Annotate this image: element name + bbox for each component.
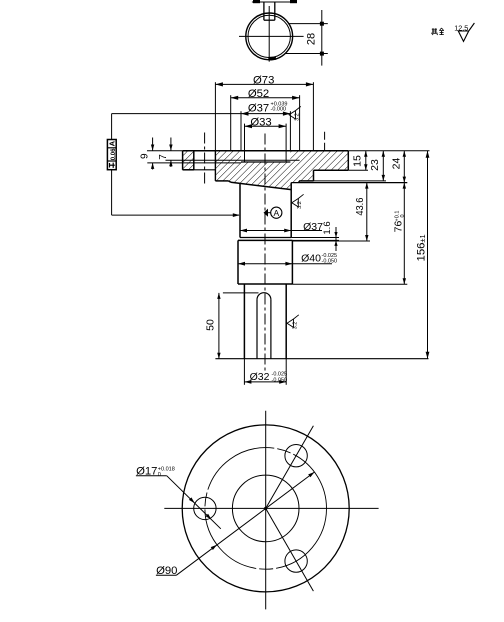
dimension Ø37 (hub) (240, 221, 323, 233)
hub shoulder line 1.6 lower (238, 239, 292, 241)
counterbore bottom (241, 161, 290, 163)
inner circle (top view) (248, 15, 290, 57)
right rim bottom (15 level) (314, 169, 349, 171)
svg-text:3.2: 3.2 (297, 201, 303, 209)
svg-text:7: 7 (158, 154, 169, 160)
svg-text:50: 50 (204, 319, 216, 331)
svg-text:0.06: 0.06 (111, 148, 117, 160)
svg-text:0: 0 (158, 472, 161, 478)
dimension Ø37 +0.039/0 with leader to tolerance frame (241, 102, 290, 151)
keyway slot rounded top (257, 293, 271, 300)
roughness symbol at hub right wall (292, 194, 304, 209)
svg-text:9: 9 (140, 153, 151, 159)
svg-text:0: 0 (400, 214, 406, 217)
left rim hatched block (183, 151, 194, 170)
vertical centerline (bottom view) (265, 411, 267, 610)
svg-text:Ø33: Ø33 (250, 116, 271, 128)
svg-text:±1: ±1 (418, 234, 427, 242)
svg-text:-0.050: -0.050 (322, 259, 338, 265)
svg-text:Ø73: Ø73 (253, 75, 274, 87)
dimension 28 (top view) (288, 23, 328, 25)
dimension Ø52 (231, 88, 300, 151)
horizontal centerline (bottom view) (164, 507, 378, 509)
flange left edge (182, 151, 184, 170)
shaft bottom / 50 and 156 extension (215, 358, 428, 360)
leader from frame down to hub surface (112, 170, 240, 217)
hub shoulder right (24 level) (291, 182, 407, 184)
hub upper section (Ø37) left wall (239, 183, 241, 237)
filled mark at circle bottom (268, 57, 276, 60)
dimension 1.6 (hub groove) (291, 221, 339, 251)
bottom view (164, 411, 378, 610)
cut-off dimension line at image top (252, 1, 296, 3)
dimension 7 (left) (158, 138, 173, 168)
svg-text:1.6: 1.6 (322, 221, 333, 234)
bolt hole centerline (left) (204, 133, 206, 185)
bolt hole left wall (193, 151, 195, 170)
Ø40 section left wall (237, 240, 239, 284)
svg-text:43.6: 43.6 (354, 197, 366, 215)
svg-text:-0.050: -0.050 (272, 377, 288, 383)
inner circle (hub) (232, 475, 299, 542)
svg-text:Ø32: Ø32 (250, 371, 270, 383)
svg-text:156: 156 (416, 243, 428, 262)
svg-text:Ø52: Ø52 (248, 88, 269, 100)
geometric tolerance frame (rotated) (107, 140, 116, 170)
dimension Ø17 leader (136, 466, 221, 529)
bolt hole top-right (285, 445, 307, 467)
Ø40 section right wall (291, 240, 293, 284)
svg-text:-0.000: -0.000 (271, 107, 287, 113)
svg-text:Ø17: Ø17 (136, 466, 157, 478)
recess bottom right (23 level) (299, 180, 313, 182)
center dot (264, 507, 267, 510)
conical underside slope (231, 182, 291, 189)
main axis centerline (264, 134, 266, 372)
outer circle (flange OD) (182, 425, 349, 592)
svg-text:3.2: 3.2 (293, 322, 299, 330)
bolt hole bottom-right (285, 550, 307, 572)
dimension Ø90 leader (156, 472, 315, 577)
keyway slot (top view) (263, 2, 265, 20)
hub shoulder line 1.6 upper (240, 237, 291, 239)
dimension Ø33 (245, 116, 287, 162)
front sectional view (147, 82, 429, 371)
general roughness note: 其余 12.5 (431, 23, 474, 41)
flange right edge (347, 151, 349, 170)
step vertical right inner (298, 181, 300, 183)
roughness symbol at shaft right wall (287, 315, 299, 330)
outer circle (top view) (246, 13, 293, 60)
7-dim extension / recess line (166, 159, 300, 161)
step vertical right (313, 170, 315, 181)
dimension 15 (right) (348, 151, 368, 170)
keyway slot right line (270, 300, 272, 359)
small step to cone (229, 181, 231, 182)
bolt hole centerline (right phantom) (324, 132, 326, 151)
svg-text:A: A (108, 140, 117, 146)
hole axis line 60deg (266, 426, 314, 509)
dimension Ø32 -0.025/-0.050 (shaft) (244, 359, 287, 385)
top view: partial end view of shaft top (239, 0, 328, 66)
datum A symbol on axis (264, 207, 282, 218)
cavity (bore) white cutout (241, 150, 290, 162)
recess bottom left (23 level) (215, 180, 228, 182)
hole exit bottom segment (183, 169, 216, 171)
bolt hole right wall / recess step edge (214, 82, 216, 151)
Ø40 section bottom (238, 283, 292, 285)
keyway slot left line (256, 300, 258, 359)
shaft left wall (243, 284, 245, 359)
dimension 9 (left) (140, 138, 155, 170)
roughness check symbol (458, 23, 474, 41)
roughness symbol at Ø37 bore dim (289, 106, 301, 119)
dimension Ø40 -0.025/-0.050 (238, 253, 337, 266)
svg-text:Ø90: Ø90 (156, 565, 177, 577)
leader from frame to Ø37 dim (112, 113, 241, 115)
dimension 50 (keyway length) (204, 293, 258, 359)
flange top face line (147, 150, 183, 152)
svg-text:Ø40: Ø40 (301, 253, 321, 265)
dimension 43.6 (right) (292, 183, 370, 241)
hub upper section right wall (290, 183, 292, 238)
left rim bottom (183, 169, 194, 171)
svg-text:Ø37: Ø37 (303, 221, 323, 233)
hole axis line 300deg (266, 508, 314, 591)
svg-text:3.2: 3.2 (295, 113, 301, 121)
bolt circle (dashed) (205, 448, 327, 570)
svg-text:24: 24 (391, 158, 403, 170)
horizontal centerline (top view) (239, 35, 304, 37)
dimension 76 +0.1/0 (right) (292, 183, 407, 285)
dimension Ø73 (215, 75, 313, 151)
svg-text:Ø37: Ø37 (248, 103, 269, 115)
svg-text:28: 28 (306, 33, 318, 45)
dimension 156 ±1 (far right) (348, 151, 429, 359)
svg-text:23: 23 (369, 159, 381, 171)
bolt hole left (194, 497, 216, 519)
shaft right wall (285, 284, 287, 359)
svg-text:15: 15 (352, 155, 364, 167)
vertical centerline (top view) (268, 6, 270, 62)
9-dim extension line (147, 162, 241, 164)
dimension 24 (right) (391, 151, 406, 183)
svg-text:A: A (273, 208, 279, 218)
flange hatched section (right of bolt hole) (216, 151, 348, 190)
dimension 23 (right) (314, 151, 387, 181)
